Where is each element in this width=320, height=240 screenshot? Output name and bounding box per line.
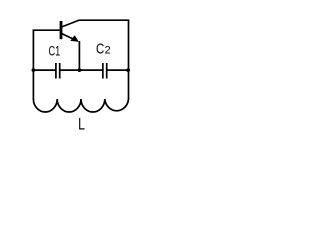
node junction dot right (126, 68, 130, 72)
wire right rail down to inductor (128, 70, 130, 99)
svg-text:L: L (78, 115, 85, 134)
inductor L (33, 99, 128, 112)
node junction dot middle (78, 68, 82, 72)
svg-text:C1: C1 (49, 44, 61, 60)
transistor Q1 (61, 20, 80, 42)
wire bottom rail left segment (33, 69, 55, 71)
node junction dot left (32, 68, 36, 72)
svg-text:C: C (96, 42, 104, 58)
wire emitter down to bottom rail (78, 41, 80, 70)
wire base lead from left rail to transistor base (33, 30, 59, 70)
capacitor C2 (103, 63, 107, 79)
svg-text:2: 2 (105, 45, 111, 57)
wire collector to top-right corner (80, 20, 129, 70)
wire bottom rail right segment (108, 69, 129, 71)
capacitor C1 (56, 63, 60, 79)
wire bottom rail middle segment (61, 69, 103, 71)
wire left rail down to inductor (32, 70, 34, 99)
